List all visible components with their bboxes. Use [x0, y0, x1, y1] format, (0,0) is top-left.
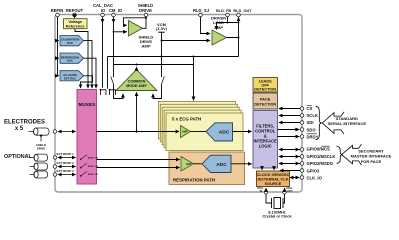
svg-text:ADC: ADC: [216, 162, 227, 168]
svg-text:EXT RESP 2: EXT RESP 2: [57, 161, 75, 165]
pin SDI: [300, 120, 313, 125]
electrode shield tap: [36, 135, 46, 151]
wire REFIN to AC leads off DAC: [58, 75, 59, 77]
calibration DAC: [60, 36, 84, 46]
svg-text:OPTIONAL: OPTIONAL: [4, 154, 33, 160]
wire XTAL2 to clock gen: [284, 188, 286, 190]
brace standard serial: [316, 106, 322, 140]
wire GPIO3: [280, 170, 300, 172]
wire RLD feedback: [217, 23, 239, 30]
wire electrode to MUXES (bidirectional): [58, 131, 76, 133]
wire filters to clock gen right: [273, 168, 275, 170]
svg-text:IN: IN: [260, 189, 263, 193]
wire SDO: [278, 129, 300, 131]
respiration path box: [169, 152, 245, 185]
switch respiration mux 3: [80, 171, 98, 176]
wire RLD_SJ to inverting input: [201, 17, 211, 34]
svg-text:DRIVE: DRIVE: [139, 8, 152, 13]
ADC respiration: [202, 155, 231, 172]
svg-text:RLD_FB: RLD_FB: [216, 8, 232, 13]
voltage reference box: [64, 19, 88, 29]
block arrow secondary master interface: [342, 144, 362, 165]
wire filters to clock gen left: [261, 168, 263, 170]
svg-text:SDI: SDI: [307, 120, 314, 125]
switch respiration mux 1: [80, 155, 98, 160]
svg-text:EXT RESP 1: EXT RESP 1: [57, 152, 75, 156]
node rail junction to ECG stack: [193, 56, 195, 58]
switch rail A hop: [109, 89, 116, 95]
svg-text:Reference: Reference: [66, 24, 86, 29]
svg-text:5 x ECG PATH: 5 x ECG PATH: [172, 116, 201, 121]
optional lead cylinder 3: [30, 171, 48, 178]
svg-text:MASTER INTERFACE: MASTER INTERFACE: [351, 154, 392, 159]
svg-text:PACE: PACE: [260, 98, 271, 102]
svg-text:RESPIRATION PATH: RESPIRATION PATH: [173, 178, 215, 183]
pin XTAL2: [283, 186, 295, 194]
wire common mode amp output to rail B: [136, 64, 138, 70]
svg-text:DETECTION: DETECTION: [254, 102, 276, 106]
svg-text:SDO: SDO: [307, 127, 317, 132]
wire GPIO0: [279, 149, 300, 151]
svg-text:(1.3V): (1.3V): [156, 26, 168, 31]
pin CS: [300, 106, 312, 112]
svg-text:CM_IO: CM_IO: [109, 8, 123, 13]
node CM_IO shield tap: [113, 31, 115, 33]
op-amp respiration: [181, 157, 194, 172]
svg-text:DRIVE: DRIVE: [37, 147, 45, 151]
wire SCLK: [279, 115, 300, 117]
svg-text:ADC: ADC: [219, 130, 230, 136]
crystal X1 (8.192MHz): [266, 194, 285, 209]
wire RLD_FB pin stub: [227, 17, 229, 23]
svg-text:RESP CM: RESP CM: [88, 166, 98, 168]
wire GPIO1: [279, 156, 300, 158]
wire shield amp feedback loop: [123, 18, 146, 26]
pin RLD_SJ: [193, 8, 210, 17]
label crystal: [262, 210, 292, 218]
svg-text:DRDY: DRDY: [307, 135, 319, 140]
wire ECG row up to common mode amp: [136, 92, 138, 131]
svg-text:COMMON: COMMON: [128, 79, 146, 83]
svg-text:CLK_IO: CLK_IO: [307, 176, 323, 181]
svg-text:IO: IO: [101, 8, 106, 13]
pace detection block: [253, 93, 278, 109]
wire CS: [279, 108, 300, 110]
arrow CM_IO down: [113, 19, 115, 23]
svg-text:ELECTRODES: ELECTRODES: [4, 120, 45, 126]
wire down to ECG stack: [193, 57, 195, 101]
wire respiration ADC to filters: [231, 163, 252, 165]
wire rail B (common mode line): [114, 64, 194, 66]
wire EXT RESP 2 to MUXES: [58, 166, 76, 168]
pin RLD_FB: [216, 8, 232, 17]
wire CM_IO rail: [113, 17, 115, 65]
clock gen osc block: [257, 171, 290, 187]
svg-text:DAC: DAC: [67, 41, 73, 45]
pin electrode (left border): [53, 130, 57, 134]
svg-text:DAC: DAC: [67, 59, 73, 63]
wire MUXES to ECG amp: [97, 131, 180, 133]
wire MUXES to respiration amp in1: [97, 159, 180, 161]
op-amp shield drive: [129, 21, 154, 49]
pin EXT RESP 3: [53, 173, 57, 177]
pin EXT RESP 1: [53, 156, 57, 160]
wire CM_IO to shield amp input: [114, 31, 127, 33]
svg-text:SCLK: SCLK: [307, 113, 318, 118]
brace secondary master: [337, 146, 343, 164]
arrow CAL_DAC_IO down: [102, 19, 104, 23]
wire REFIN rail: [57, 17, 59, 76]
svg-text:FOR PACE: FOR PACE: [361, 159, 382, 164]
wire DRDY: [278, 136, 300, 138]
pin GPIO3: [300, 168, 320, 173]
wire ECG amp to ADC: [191, 131, 207, 133]
wire REFIN to calibration DAC: [58, 40, 59, 42]
svg-text:OFF DAC: OFF DAC: [64, 76, 76, 80]
svg-text:AMP: AMP: [141, 44, 151, 49]
node RLD_FB junction: [227, 22, 229, 24]
op-amp common mode: [116, 70, 157, 91]
op-amp ECG: [181, 126, 191, 138]
svg-text:GPIO2/MSDO: GPIO2/MSDO: [307, 161, 334, 166]
svg-text:SECONDARY: SECONDARY: [358, 148, 384, 153]
pin REFOUT: [66, 8, 84, 17]
svg-text:DETECTION: DETECTION: [254, 88, 276, 92]
pin GPIO2/MSDO: [300, 161, 334, 166]
switch respiration mux 2: [80, 163, 98, 168]
pin SDO: [300, 127, 316, 132]
pin GPIO0/MCS: [300, 146, 330, 152]
pin XTAL1: [257, 186, 268, 194]
wire rail A left drop: [107, 57, 109, 89]
pin CLK_IO: [300, 176, 322, 181]
pin CM_IO: [109, 8, 123, 17]
svg-text:RLD_SJ: RLD_SJ: [193, 8, 210, 13]
svg-text:x 5: x 5: [15, 126, 24, 132]
wire AC leads off DAC to MUXES: [81, 76, 93, 88]
respiration DAC: [60, 53, 84, 63]
switch right common mode input: [153, 77, 164, 99]
filters control interface logic block: [253, 111, 278, 169]
wire CAL_DAC_IO rail: [102, 17, 104, 88]
optional lead cylinder 2: [30, 163, 48, 170]
chip boundary (IC outline): [55, 15, 302, 193]
node RLD output junction: [238, 37, 240, 39]
svg-text:GPIO1/MSCLK: GPIO1/MSCLK: [307, 154, 336, 159]
wire ECG ADC to filters: [233, 131, 252, 133]
wire CLK_IO: [290, 177, 299, 179]
svg-text:EXT RESP 3: EXT RESP 3: [57, 169, 75, 173]
label secondary master interface for pace: [351, 148, 392, 164]
wire voltage reference to MUXES: [75, 29, 88, 89]
node feedback junction: [145, 17, 147, 19]
wire MUXES to respiration amp in2: [97, 167, 180, 169]
svg-text:AMP: AMP: [186, 162, 192, 166]
pin REFIN: [51, 8, 64, 17]
pin EXT RESP 2: [53, 165, 57, 169]
svg-text:AMP: AMP: [182, 131, 188, 134]
wire GPIO2: [279, 163, 300, 165]
wire SDI: [279, 122, 300, 124]
arrow RLD_OUT up: [238, 18, 240, 22]
svg-text:SERIAL INTERFACE: SERIAL INTERFACE: [328, 121, 367, 126]
svg-text:OUT: OUT: [287, 189, 293, 193]
MUXES block: [77, 90, 97, 185]
wire REFOUT to voltage reference: [74, 17, 76, 18]
pin CAL_DAC_IO: [93, 3, 113, 17]
wire shield amp output to SHIELD DRIVE pin: [143, 17, 147, 29]
leads off detection block: [253, 78, 278, 93]
ECG channel stacked boxes: [158, 101, 243, 150]
svg-text:LOGIC: LOGIC: [259, 144, 272, 149]
pin SHIELD DRIVE: [138, 3, 153, 17]
wire EXT RESP 3 to MUXES: [58, 174, 76, 176]
node VCM (1.3V): [156, 22, 168, 77]
wire respiration DAC to MUXES: [84, 58, 97, 88]
wire calibration DAC to MUXES: [84, 41, 93, 88]
label standard serial interface: [328, 116, 367, 126]
pin DRDY: [300, 134, 318, 140]
op-amp driven lead: [211, 16, 227, 45]
pin SCLK: [300, 113, 318, 118]
svg-text:REFIN: REFIN: [51, 8, 64, 13]
svg-text:MUXES: MUXES: [78, 102, 95, 107]
wire EXT RESP 1 to MUXES: [58, 157, 76, 159]
svg-text:CS: CS: [307, 106, 313, 111]
wire rail A (VCM horizontal): [108, 56, 239, 58]
svg-text:RESP CM: RESP CM: [88, 174, 98, 176]
label ELECTRODES x 5: [4, 120, 45, 133]
svg-text:AMP: AMP: [213, 25, 223, 30]
ADC ECG: [206, 123, 233, 141]
pin GPIO1/MSCLK: [300, 154, 335, 159]
optional lead cylinder 1: [30, 154, 48, 161]
block arrow standard serial interface: [322, 112, 344, 134]
svg-text:RESP CM: RESP CM: [88, 158, 98, 160]
svg-text:GPIO0/MCS: GPIO0/MCS: [307, 147, 330, 152]
switch cal dac hop: [100, 89, 106, 95]
pin RLD_OUT: [233, 8, 252, 17]
switch left common mode input: [111, 65, 123, 99]
svg-text:SHIELD: SHIELD: [36, 143, 46, 147]
svg-text:RLD_OUT: RLD_OUT: [233, 8, 252, 13]
svg-text:REFOUT: REFOUT: [66, 8, 84, 13]
electrode lead cylinder: [29, 128, 50, 135]
wire RLD output to RLD_OUT and down: [227, 18, 239, 57]
svg-text:Crystal or Clock: Crystal or Clock: [262, 215, 292, 218]
AC leads off DAC: [60, 71, 84, 81]
svg-text:GPIO3: GPIO3: [307, 168, 320, 173]
svg-text:SOURCE: SOURCE: [265, 181, 282, 186]
wire VCM to noninverting input: [162, 40, 211, 42]
wire REFIN to respiration DAC: [58, 57, 59, 59]
wire XTAL1 to clock gen: [265, 188, 267, 190]
wire respiration amp to ADC: [194, 163, 203, 165]
node ECG row junction: [135, 130, 137, 132]
svg-text:MODE AMP: MODE AMP: [126, 84, 147, 88]
